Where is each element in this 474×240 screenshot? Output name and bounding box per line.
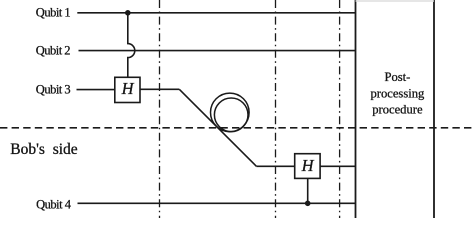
svg-text:procedure: procedure [372,103,423,117]
control dot on Qubit 1 [125,10,131,16]
svg-text:Qubit 2: Qubit 2 [36,43,71,57]
vertical wire from control dot to H gate with hop over Qubit 2 [128,13,135,78]
wire from H2 to post-processing box [320,165,355,167]
svg-text:processing: processing [370,87,425,101]
time-slice dash-dot line 2 [275,0,277,218]
wire from H1 to diagonal bend [140,88,179,90]
channel loop outer circle [211,93,250,132]
wire Qubit 3 left segment [77,89,115,91]
gate H2 [295,154,320,179]
wire Qubit 2 [79,50,356,52]
dashed boundary between Alice and Bob sides [0,127,474,129]
vertical wire from H2 down to Qubit 4 [307,178,309,203]
svg-text:Bob's side: Bob's side [10,141,78,158]
svg-text:Qubit 1: Qubit 1 [36,5,71,19]
wire from diagonal bend to H2 [256,165,294,167]
post-processing box right edge [433,0,435,218]
svg-text:Post-: Post- [384,70,410,84]
post-processing box faint top edge [356,0,435,2]
time-slice dash-dot line 3 [339,0,341,218]
wire Qubit 1 [77,12,355,14]
control dot on Qubit 4 [305,201,311,207]
svg-text:H: H [121,79,135,98]
svg-text:H: H [301,156,315,175]
wire Qubit 4 [78,202,356,204]
post-processing box left edge [355,0,357,218]
label Post-processing procedure [370,70,425,117]
svg-text:Qubit 3: Qubit 3 [36,82,71,96]
svg-text:Qubit 4: Qubit 4 [36,197,72,211]
diagonal channel wire [179,89,256,166]
channel loop inner circle [214,98,248,132]
gate H1 [115,77,140,102]
time-slice dash-dot line 1 [159,0,161,218]
